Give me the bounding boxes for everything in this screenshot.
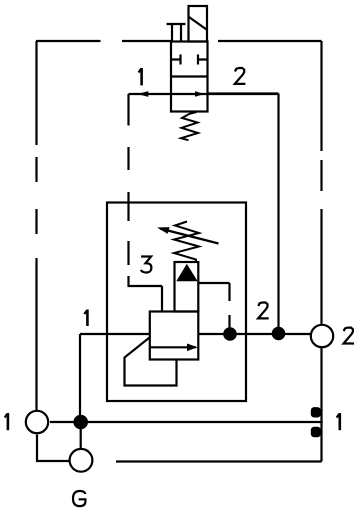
pilot line port1 dashed vertical xyxy=(127,94,129,286)
label G xyxy=(73,491,85,506)
port 2 circle xyxy=(311,325,333,347)
enclosure boundary right dashed line xyxy=(320,41,322,325)
relief valve R1 main square xyxy=(150,312,199,360)
junction dot port2 drop xyxy=(272,327,286,341)
label 2 outside port2 xyxy=(344,328,355,344)
label 2 valve port xyxy=(235,68,246,84)
label 1 outside port1 xyxy=(5,413,8,430)
relief valve internal flow line with arrow xyxy=(150,346,196,348)
port 1 circle xyxy=(26,411,48,433)
label 3 pilot port xyxy=(141,257,152,273)
adjustment arrowhead xyxy=(157,227,170,234)
pilot line corner to relief pilot xyxy=(128,286,163,312)
valve V1 blocked port symbols xyxy=(172,55,209,65)
bottom boundary line xyxy=(116,460,322,462)
valve V1 spring xyxy=(181,112,198,140)
right boundary below port2 xyxy=(320,347,322,462)
label 1 valve port xyxy=(139,68,142,85)
arrow right in valve position xyxy=(195,91,205,97)
pilot drain line dashed xyxy=(198,283,229,328)
solenoid U1 coil box xyxy=(189,6,208,42)
relief pilot box xyxy=(175,262,199,312)
junction dot pilot drain xyxy=(223,327,237,341)
main line right segment xyxy=(198,333,310,335)
arrow left on flow line xyxy=(138,91,149,97)
relief internal arrowhead xyxy=(187,344,198,352)
relief port1 drop xyxy=(79,334,81,422)
main bottom line port1 xyxy=(50,421,323,423)
junction dot drain xyxy=(73,415,88,430)
valve V1 body xyxy=(171,42,208,112)
relief drain loop xyxy=(125,338,177,386)
enclosure boundary left dashed line xyxy=(35,41,37,410)
drain drop to gauge xyxy=(80,422,82,448)
gauge circle G xyxy=(70,449,93,472)
relief spring xyxy=(174,222,199,262)
port1 to gauge corner xyxy=(37,435,69,462)
adjustment arrow shaft xyxy=(160,229,219,244)
label 2 port2 drop xyxy=(258,303,269,319)
label 1 plugged port xyxy=(337,413,340,430)
main line left segment xyxy=(80,333,150,335)
solenoid manual override symbol xyxy=(167,24,186,42)
inner assembly box xyxy=(107,203,246,402)
plugged port capsule top xyxy=(311,407,321,417)
port 2 drop line xyxy=(208,94,279,334)
valve V1 flow line xyxy=(129,93,278,95)
enclosure boundary top dashed line xyxy=(36,40,322,42)
plugged port capsule bottom xyxy=(311,427,321,438)
label 1 relief line xyxy=(84,310,87,327)
relief pilot poppet triangle xyxy=(176,264,197,282)
